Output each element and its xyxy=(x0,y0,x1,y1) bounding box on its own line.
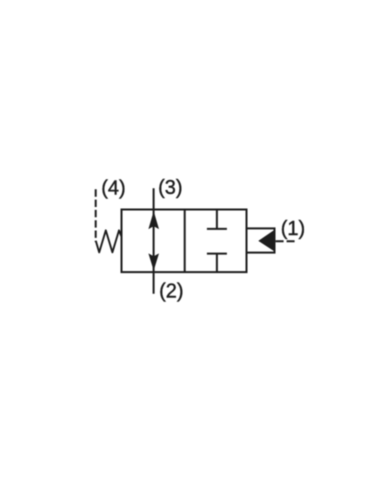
svg-text:(1): (1) xyxy=(281,218,305,240)
svg-text:(2): (2) xyxy=(159,280,183,302)
svg-text:(4): (4) xyxy=(101,178,125,200)
svg-text:(3): (3) xyxy=(158,177,182,199)
